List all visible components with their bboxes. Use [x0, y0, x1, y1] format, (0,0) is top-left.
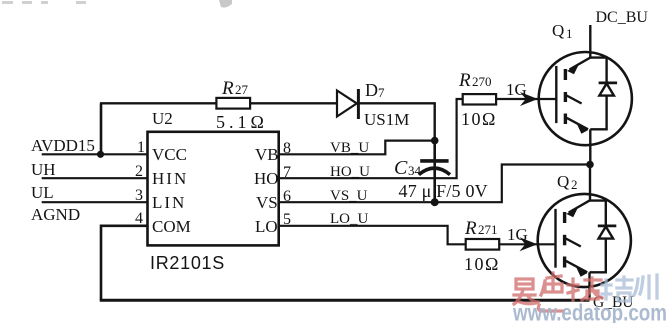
- svg-text:C: C: [394, 157, 408, 179]
- gate drive arrow into Q2: [520, 237, 538, 251]
- Q1 emitter arrowhead: [577, 124, 588, 134]
- svg-text:US1M: US1M: [364, 110, 409, 129]
- svg-text:6: 6: [283, 188, 291, 205]
- watermark: 易迪拓培训 logo characters: [514, 273, 657, 311]
- svg-text:27: 27: [235, 82, 249, 97]
- svg-text:LO_U: LO_U: [330, 211, 368, 227]
- svg-text:10Ω: 10Ω: [461, 109, 497, 129]
- svg-text:270: 270: [472, 74, 492, 89]
- svg-text:271: 271: [478, 222, 498, 237]
- svg-text:LO: LO: [255, 217, 278, 236]
- wire: pin 7 HO_U to R270 riser: [279, 99, 463, 178]
- resistor R270 body: [463, 94, 496, 104]
- svg-text:5.1Ω: 5.1Ω: [216, 112, 268, 132]
- svg-text:R: R: [221, 78, 234, 99]
- svg-text:1: 1: [566, 26, 573, 41]
- svg-text:1: 1: [137, 139, 145, 156]
- svg-text:Q: Q: [552, 21, 564, 40]
- svg-text:R: R: [458, 70, 471, 91]
- faint cropped caption fragments at top: [2, 0, 232, 8]
- node A: bootstrap VB junction dot: [431, 137, 439, 145]
- svg-text:AGND: AGND: [31, 205, 80, 224]
- svg-text:7: 7: [378, 85, 385, 100]
- Q1 collector arrowhead: [567, 65, 579, 74]
- svg-text:VS_U: VS_U: [330, 188, 368, 204]
- svg-text:UL: UL: [31, 183, 54, 202]
- svg-text:1G: 1G: [507, 225, 528, 244]
- diode D7: [337, 89, 358, 119]
- svg-text:Q: Q: [557, 172, 569, 191]
- wire: pin 8 VB_U with step up to node A: [279, 141, 435, 155]
- svg-text:3: 3: [135, 187, 143, 204]
- node: VS junction at C34 negative plate: [431, 198, 439, 206]
- svg-text:LIN: LIN: [152, 193, 186, 212]
- svg-text:D: D: [365, 80, 378, 100]
- wire: AGND/COM pin 4 stub and riser down to bottom rail: [101, 226, 148, 300]
- resistor R27 body: [216, 98, 250, 109]
- wire: pin 5 LO_U down to R271: [279, 226, 466, 245]
- wire: UL net to pin 3: [42, 201, 148, 203]
- svg-text:10Ω: 10Ω: [464, 254, 500, 274]
- wire: DC_BU stub to Q1 drain: [589, 25, 591, 59]
- svg-text:UH: UH: [31, 160, 56, 179]
- svg-text:2: 2: [135, 163, 143, 180]
- svg-text:34: 34: [408, 163, 422, 178]
- node: half-bridge midpoint dot: [586, 161, 594, 169]
- svg-text:47 μ F/5 0V: 47 μ F/5 0V: [399, 181, 488, 201]
- svg-text:DC_BU: DC_BU: [596, 9, 649, 26]
- svg-text:7: 7: [283, 164, 291, 181]
- svg-text:VB_U: VB_U: [330, 140, 369, 156]
- wire: left riser from top rail to AVDD15 net: [100, 103, 103, 154]
- svg-text:www.edatop.com: www.edatop.com: [512, 300, 667, 323]
- wire: top rail right segment (D7 cathode to corner) + drop to node A: [359, 103, 434, 140]
- capacitor C34 positive plate: [420, 159, 448, 163]
- svg-text:COM: COM: [152, 217, 191, 236]
- capacitor C34 negative curved plate: [419, 168, 450, 175]
- wire: AVDD15 net to pin 1: [42, 153, 148, 155]
- wire: pin 6 VS_U to midpoint node: [279, 165, 590, 203]
- Q2 collector arrowhead: [566, 208, 578, 217]
- transistor Q2 (low-side MOSFET with body diode): [538, 194, 631, 300]
- svg-text:VS: VS: [256, 193, 278, 212]
- svg-text:1G: 1G: [506, 80, 527, 99]
- Q2 emitter arrowhead: [576, 267, 587, 277]
- svg-text:VCC: VCC: [152, 145, 187, 164]
- node: AVDD15 junction dot: [97, 151, 104, 158]
- wire: node A down through C34 to VS node: [433, 141, 436, 203]
- svg-text:VB: VB: [255, 145, 279, 164]
- gate drive arrow into Q1: [520, 92, 538, 106]
- svg-text:4: 4: [135, 210, 143, 227]
- svg-text:R: R: [464, 218, 477, 239]
- svg-text:5: 5: [283, 211, 291, 228]
- svg-text:U2: U2: [152, 109, 173, 128]
- wire: UH net to pin 2: [42, 177, 148, 179]
- wire: midpoint down to Q2 drain: [589, 165, 591, 201]
- svg-text:HO: HO: [254, 169, 279, 188]
- wire: top rail left segment (AVDD15 riser to R27): [100, 102, 216, 104]
- svg-text:HIN: HIN: [152, 169, 188, 188]
- wire: bottom rail (COM/AGND to Q2 source): [100, 299, 590, 302]
- svg-text:8: 8: [283, 140, 291, 157]
- transistor Q1 (high-side MOSFET with body diode): [539, 52, 632, 165]
- svg-text:IR2101S: IR2101S: [150, 253, 225, 273]
- svg-text:AVDD15: AVDD15: [31, 136, 95, 155]
- wire: top rail middle segment (R27 to D7 anode): [250, 102, 337, 104]
- wire: R271 to Q2 gate: [499, 243, 555, 245]
- svg-text:2: 2: [571, 177, 578, 192]
- wire: R270 to Q1 gate: [496, 98, 556, 100]
- svg-text:HO_U: HO_U: [330, 164, 370, 180]
- IC U2 body: [148, 132, 279, 246]
- resistor R271 body: [466, 239, 500, 250]
